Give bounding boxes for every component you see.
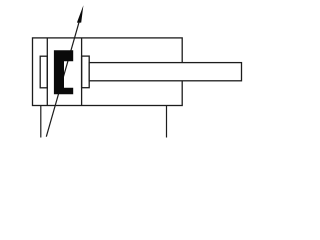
port line left — [40, 106, 42, 138]
piston plate left — [46, 38, 48, 106]
cushion sleeve right — [82, 56, 90, 88]
arrowhead — [77, 5, 84, 22]
cylinder barrel (body) — [33, 38, 183, 106]
port line right — [166, 106, 168, 138]
cushioning adjustment arrow shaft — [46, 22, 79, 136]
piston rod — [89, 63, 241, 81]
cushion sleeve left — [40, 56, 47, 88]
magnet on piston (black bracket) — [54, 50, 73, 94]
piston plate right — [81, 38, 83, 106]
